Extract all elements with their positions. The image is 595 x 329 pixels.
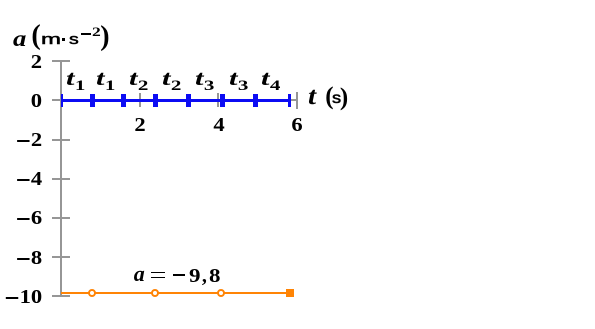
y label 0 <box>31 100 42 102</box>
comma <box>202 275 207 277</box>
y tick -2 <box>52 139 71 141</box>
orange open circle 2 <box>151 289 159 297</box>
interval label t3 (second) <box>229 78 248 86</box>
x tick 4 <box>217 93 219 107</box>
x-axis title: t (s) <box>308 96 316 98</box>
x label 2 <box>117 124 162 126</box>
x tick 2 <box>139 93 141 107</box>
x-axis line <box>60 99 297 101</box>
y tick -4 <box>52 178 71 180</box>
close paren <box>100 36 109 38</box>
y label -4 <box>17 179 42 181</box>
digit 9 <box>189 275 201 277</box>
orange filled square end marker <box>286 289 294 297</box>
interval label t1 (second) <box>96 78 115 86</box>
blue interior tick 5 <box>220 94 225 107</box>
minus sign <box>173 274 185 276</box>
y label -2 <box>17 140 42 142</box>
y label -6 <box>17 218 42 220</box>
blue interior tick 6 <box>253 94 258 107</box>
superscript minus <box>81 33 91 35</box>
y tick -10 <box>52 295 71 297</box>
variable a <box>13 38 26 40</box>
interval label t4 <box>261 78 280 86</box>
interval label t3 (first) <box>195 78 214 86</box>
blue interior tick 3 <box>153 94 158 107</box>
interval label t2 (first) <box>129 78 148 86</box>
middle dot <box>62 38 65 41</box>
blue end tick t=0 <box>61 94 63 107</box>
blue interior tick 4 <box>186 94 191 107</box>
unit s <box>69 39 79 41</box>
x label 4 <box>196 124 241 126</box>
blue end tick right <box>288 94 290 107</box>
y tick -6 <box>52 217 71 219</box>
y label -10 <box>6 297 42 299</box>
open paren <box>31 35 40 37</box>
variable a <box>134 273 145 275</box>
digit 8 <box>209 275 221 277</box>
interval label t2 (second) <box>162 78 181 86</box>
blue series: a=0 line <box>61 99 291 101</box>
blue interior tick 1 <box>90 94 95 107</box>
unit m <box>41 39 61 41</box>
blue interior tick 2 <box>121 94 126 107</box>
y tick 2 <box>52 60 71 62</box>
x-axis end cap tick <box>296 92 298 110</box>
y tick 0 <box>52 99 71 101</box>
interval label t1 (first) <box>66 78 85 86</box>
x label 6 <box>275 124 320 126</box>
equals sign <box>151 272 165 278</box>
y tick -8 <box>52 256 71 258</box>
y-axis line <box>60 60 62 297</box>
y label 2 <box>31 61 42 63</box>
orange series: a=-9.8 line <box>61 292 290 295</box>
orange open circle 1 <box>88 289 96 297</box>
orange open circle 3 <box>217 289 225 297</box>
y label -8 <box>17 258 42 260</box>
superscript 2 <box>92 31 101 33</box>
